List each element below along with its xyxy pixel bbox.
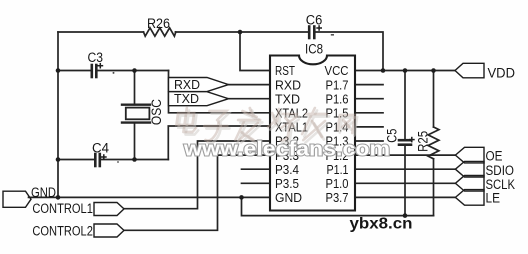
wire P3.7 to LE port: [355, 196, 455, 198]
port CONTROL2: [94, 224, 124, 237]
wire P3.5 stub: [242, 182, 271, 184]
svg-text:ybx8.cn: ybx8.cn: [350, 216, 413, 233]
node C6-VCC: [381, 68, 386, 73]
svg-text:R26: R26: [147, 16, 170, 31]
port VDD: [455, 63, 484, 78]
wire CONTROL1 to P3.2: [124, 141, 270, 209]
svg-text:SDIO: SDIO: [486, 163, 515, 178]
capacitor C5: [399, 140, 411, 145]
plus mark of C4: [101, 154, 107, 160]
node R26-C6-RST: [238, 30, 243, 35]
wire GND row: port to chip GND pin: [29, 196, 271, 198]
svg-text:P1.0: P1.0: [326, 176, 349, 191]
port OE: [455, 147, 484, 163]
speck near C6: [331, 34, 334, 36]
wire P1.0 to SCLK port: [355, 182, 455, 184]
node rail-GND: [56, 195, 61, 200]
wire P1.6 stub: [355, 98, 383, 100]
wire P1.2 to OE port: [355, 154, 455, 156]
svg-text:TXD: TXD: [174, 91, 199, 106]
wire C4 to XTAL1 branch corner: [100, 159, 169, 161]
wire CONTROL2 to P3.3: [124, 155, 270, 230]
svg-text:RXD: RXD: [275, 77, 301, 92]
node R25-VCC: [431, 68, 436, 73]
svg-text:R25: R25: [416, 131, 431, 152]
port GND: [3, 191, 31, 207]
svg-text:RXD: RXD: [174, 77, 200, 92]
resistor R25: [428, 127, 439, 159]
wire crystal top drop: [134, 71, 136, 105]
wire P1.7 stub: [355, 84, 383, 86]
capacitor C6: [309, 27, 314, 39]
wire C4 row: rail to C4: [58, 159, 94, 161]
capacitor C3: [92, 65, 97, 77]
svg-text:GND: GND: [31, 185, 56, 200]
svg-text:C6: C6: [306, 12, 323, 27]
wire XTAL2 feed: down and right to chip pin 4: [169, 71, 271, 113]
svg-text:VCC: VCC: [325, 63, 349, 78]
plus mark of C6: [316, 25, 322, 31]
node rail-C4: [56, 157, 61, 162]
wire C3 to XTAL2 branch corner: [96, 70, 168, 72]
svg-text:CONTROL2: CONTROL2: [32, 224, 93, 239]
resistor R26: [144, 28, 176, 36]
wire C3 row: rail to C3: [58, 70, 91, 72]
svg-text:CONTROL1: CONTROL1: [32, 201, 93, 216]
wire crystal bottom drop to C4 row: [134, 123, 136, 160]
svg-text:P1.1: P1.1: [327, 162, 349, 177]
wire GND under-chip run: [242, 197, 434, 215]
node C5-GND: [403, 213, 408, 218]
svg-text:P3.5: P3.5: [275, 176, 299, 191]
plus mark of C3: [98, 63, 104, 69]
wire P1.5 stub: [355, 112, 383, 114]
wire XTAL1 feed: up and right to chip pin 5: [168, 126, 270, 160]
port TXD: [169, 92, 229, 106]
node C4-crystal: [132, 157, 137, 162]
speck near C3: [113, 72, 115, 74]
wire R25 bottom to under-chip GND run: [433, 159, 435, 216]
svg-text:GND: GND: [275, 190, 302, 205]
svg-text:OSC: OSC: [149, 99, 164, 125]
wire P3.4 stub: [242, 168, 271, 170]
plus mark of C5: [409, 137, 415, 143]
svg-text:LE: LE: [486, 191, 501, 206]
wire C6 right plate to corner and down to VCC node: [314, 32, 383, 71]
svg-text:P1.6: P1.6: [326, 91, 349, 106]
svg-text:RST: RST: [275, 63, 295, 78]
wire top rail from left corner to R26: [58, 31, 144, 33]
svg-text:TXD: TXD: [275, 91, 300, 106]
port SCLK: [455, 176, 484, 192]
node C5-VCC: [403, 68, 408, 73]
wire RST drop from R26/C6 node: [240, 32, 270, 71]
wire C5 top drop: [404, 71, 406, 140]
svg-text:C3: C3: [88, 50, 104, 65]
svg-text:P3.4: P3.4: [275, 162, 299, 177]
wire R25 top drop: [433, 71, 435, 128]
wire RXD port to chip: [229, 84, 271, 86]
wire P1.4 stub: [355, 126, 383, 128]
svg-text:OE: OE: [486, 148, 503, 163]
wire TXD port to chip: [229, 98, 271, 100]
port LE: [455, 190, 484, 206]
wire VCC row to VDD port: [355, 70, 455, 72]
wire P1.1 to SDIO port: [355, 168, 455, 170]
op-amp-chip body IC8: [270, 56, 355, 211]
wire left vertical rail: [57, 32, 59, 197]
svg-text:IC8: IC8: [305, 42, 323, 57]
svg-text:www.elecfans.com: www.elecfans.com: [183, 139, 390, 161]
port RXD: [169, 78, 229, 92]
speck near C4: [117, 161, 119, 163]
port SDIO: [455, 161, 484, 177]
svg-text:VDD: VDD: [488, 66, 516, 81]
svg-text:C4: C4: [92, 140, 110, 155]
wire C5 bottom drop to under-chip GND run: [404, 145, 406, 216]
svg-text:SCLK: SCLK: [486, 177, 516, 192]
node C3-crystal: [132, 68, 137, 73]
svg-text:P1.7: P1.7: [326, 77, 349, 92]
wire R26 to C6 left plate: [175, 31, 308, 33]
node GND-underchip: [239, 195, 244, 200]
wire P1.3 stub: [355, 140, 383, 142]
node rail-C3: [56, 68, 61, 73]
crystal OSC: [122, 105, 150, 123]
port CONTROL1: [94, 203, 124, 216]
capacitor C4: [95, 154, 100, 166]
watermark chinese glyphs: [174, 108, 358, 143]
svg-text:P3.7: P3.7: [326, 190, 349, 205]
